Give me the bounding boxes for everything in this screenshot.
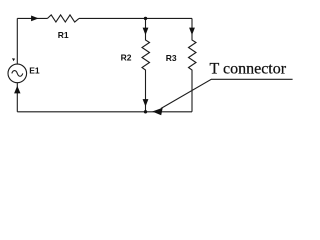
wire top right segment: [79, 17, 192, 19]
wire bottom: [17, 111, 192, 113]
arrow current direction top wire: [31, 16, 38, 22]
leader arrowhead: [152, 108, 163, 115]
leader line to T connector: [161, 79, 293, 108]
wire left vertical upper: [16, 18, 18, 64]
wire left vertical lower: [16, 83, 18, 112]
ac source E1: [8, 64, 27, 83]
resistor R1: [48, 15, 80, 22]
resistor R3: [189, 18, 197, 111]
node junction bottom: [144, 110, 147, 113]
node junction top: [144, 17, 147, 20]
wire top left segment: [17, 17, 47, 19]
arrow current direction R2 branch top: [143, 28, 149, 35]
arrow current direction R2 branch bottom: [143, 99, 149, 107]
svg-text:T connector: T connector: [210, 61, 287, 78]
arrow current direction R3 branch top: [189, 28, 195, 35]
svg-text:E1: E1: [29, 65, 40, 75]
resistor R2: [142, 18, 150, 111]
arrow current direction left wire up: [14, 86, 20, 94]
svg-text:R2: R2: [121, 53, 132, 63]
polarity mark: [12, 58, 15, 61]
svg-text:R3: R3: [166, 53, 177, 63]
svg-text:R1: R1: [58, 30, 69, 40]
